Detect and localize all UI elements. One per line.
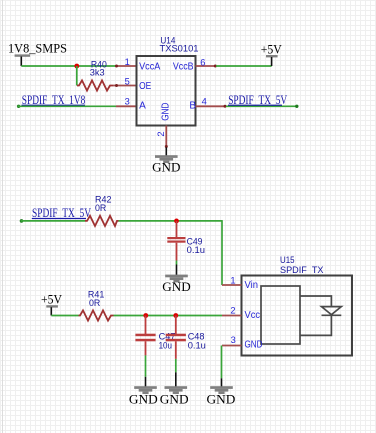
- svg-text:GND: GND: [162, 280, 190, 294]
- wire pin6 to +5V: [216, 65, 272, 67]
- ground (C49): [162, 265, 190, 295]
- pin 5 (OE) stub: [113, 77, 137, 87]
- svg-text:0R: 0R: [95, 203, 106, 214]
- pin 4 (B) stub: [196, 96, 227, 107]
- net label SPDIF_TX_5V (right): [228, 93, 287, 107]
- svg-text:GND: GND: [160, 392, 189, 406]
- svg-text:4: 4: [202, 96, 207, 106]
- pin 1 (Vin) stub: [222, 276, 258, 292]
- svg-text:SPDIF_TX: SPDIF_TX: [280, 265, 324, 276]
- svg-text:0R: 0R: [89, 298, 100, 309]
- svg-text:1: 1: [125, 57, 130, 67]
- wire SPDIF_TX_1V8 to pin3: [17, 105, 116, 108]
- resistor R40: [77, 60, 113, 91]
- svg-text:GND: GND: [129, 392, 158, 406]
- svg-text:3: 3: [125, 96, 130, 106]
- svg-text:Vin: Vin: [245, 280, 259, 291]
- wire R42 to U15 corner: [119, 220, 223, 222]
- wire C49 to ground: [176, 261, 178, 265]
- power port +5V (bottom): [41, 293, 62, 316]
- wire U15 pin3 to ground: [221, 346, 223, 379]
- svg-text:+5V: +5V: [41, 293, 62, 307]
- svg-text:0.1u: 0.1u: [188, 340, 206, 351]
- IC U14 body: [137, 35, 199, 125]
- wire end dot: [295, 105, 298, 108]
- node junction C49: [174, 219, 179, 224]
- svg-text:6: 6: [200, 57, 205, 67]
- sheet border line: [2, 0, 4, 433]
- ground (U14 pin2): [152, 147, 180, 174]
- svg-text:A: A: [139, 101, 146, 112]
- svg-text:3k3: 3k3: [90, 68, 105, 79]
- resistor R42: [85, 195, 119, 226]
- svg-text:GND: GND: [152, 160, 180, 174]
- capacitor C49: [167, 221, 205, 261]
- U15 led wiring top: [300, 296, 331, 306]
- U15 inner module box: [261, 286, 300, 344]
- svg-text:5: 5: [125, 77, 130, 87]
- pin 6 (VccB) stub: [196, 57, 217, 67]
- svg-text:+5V: +5V: [261, 42, 282, 56]
- svg-text:B: B: [189, 101, 196, 112]
- capacitor C47: [135, 316, 175, 356]
- wire junction down to R40: [76, 66, 78, 86]
- svg-text:VccA: VccA: [139, 61, 160, 72]
- ground (C48): [160, 372, 189, 406]
- net label SPDIF_TX_5V (middle): [32, 206, 91, 220]
- node junction C47: [143, 313, 148, 318]
- connector U15 body: [242, 255, 353, 356]
- power port +5V (top): [261, 42, 282, 66]
- svg-text:SPDIF_TX_5V: SPDIF_TX_5V: [32, 206, 91, 220]
- U15 led wiring bottom: [300, 316, 331, 336]
- power port 1V8_SMPS: [8, 41, 67, 66]
- net label SPDIF_TX_1V8: [22, 93, 86, 107]
- wire down to U15 pin1: [221, 220, 223, 285]
- wire R41 to U15 pin2: [114, 315, 223, 317]
- svg-text:2: 2: [230, 306, 235, 316]
- svg-text:GND: GND: [245, 340, 263, 351]
- node junction C48: [173, 313, 178, 318]
- ground (U15 pin3): [207, 378, 236, 406]
- svg-text:VccB: VccB: [173, 61, 194, 72]
- wire +5V to R41: [51, 315, 78, 317]
- node junction on 1V8 net: [74, 64, 79, 69]
- pin 3 (A) stub: [116, 96, 137, 106]
- pin 1 (VccA) stub: [115, 57, 137, 68]
- ground (C47): [129, 377, 158, 407]
- svg-text:GND: GND: [207, 392, 236, 406]
- diode LED in U15: [322, 307, 342, 316]
- svg-text:2: 2: [156, 131, 166, 136]
- wire C48 to ground: [175, 359, 177, 372]
- pin 2 (GND) stub: [156, 126, 168, 149]
- wire pin4 to net label: [226, 105, 298, 107]
- capacitor C48: [166, 316, 206, 359]
- svg-text:GND: GND: [161, 103, 172, 121]
- svg-text:10u: 10u: [159, 340, 172, 351]
- wire label to R42: [20, 219, 85, 223]
- svg-text:0.1u: 0.1u: [187, 245, 205, 256]
- svg-text:Vcc: Vcc: [245, 310, 261, 321]
- svg-text:3: 3: [231, 335, 236, 345]
- pin 2 (Vcc) stub: [222, 306, 260, 322]
- wire C47 to ground: [145, 355, 147, 376]
- svg-text:OE: OE: [139, 81, 151, 92]
- svg-text:1V8_SMPS: 1V8_SMPS: [8, 41, 67, 55]
- wire 1V8_SMPS to pin1: [21, 65, 116, 67]
- svg-text:1: 1: [230, 276, 235, 286]
- resistor R41: [79, 290, 114, 321]
- pin 3 (GND) stub: [222, 335, 263, 350]
- svg-text:TXS0101: TXS0101: [160, 44, 199, 55]
